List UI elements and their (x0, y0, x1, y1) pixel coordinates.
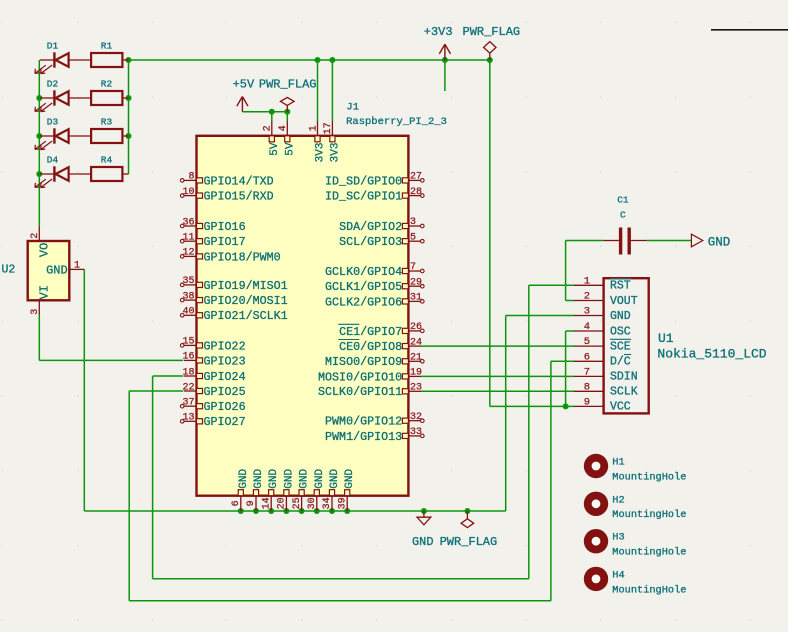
svg-text:GND: GND (253, 468, 265, 488)
U1 pin 4 OSC (574, 321, 631, 338)
junction GND pin6 (238, 508, 244, 514)
U2 pin 2 VO (30, 226, 52, 257)
wire lower return 1 (153, 578, 529, 580)
svg-text:5V: 5V (284, 142, 296, 156)
svg-text:GPIO24: GPIO24 (204, 370, 246, 384)
wire GPIO25 horizontal (129, 390, 183, 392)
power symbol +3V3 (424, 25, 453, 60)
svg-text:28: 28 (410, 187, 422, 198)
connector J1 Raspberry_PI_2_3 (180, 25, 766, 596)
wire 5V to J1 pin2 (271, 112, 273, 121)
J1 pin 26 CE1/GPIO7 (338, 322, 424, 339)
svg-text:GND: GND (708, 235, 731, 249)
wire GPIO24 horizontal (153, 375, 184, 377)
svg-text:39: 39 (337, 497, 348, 509)
svg-text:GPIO19/MISO1: GPIO19/MISO1 (204, 279, 288, 293)
svg-text:36: 36 (182, 217, 194, 228)
wire GPIO24 vertical (152, 376, 154, 579)
svg-text:26: 26 (410, 322, 422, 333)
U1 pin 6 D/C (574, 351, 631, 368)
J1 pin 35 GPIO19/MISO1 (180, 276, 287, 293)
J1 pin 17 3V3 top (323, 121, 341, 162)
svg-text:VI: VI (38, 285, 52, 299)
svg-text:GPIO15/RXD: GPIO15/RXD (204, 190, 274, 204)
svg-text:GND: GND (268, 468, 280, 488)
J1 pin 3 SDA/GPIO2 (339, 217, 424, 234)
svg-text:C1: C1 (617, 195, 629, 206)
J1 pin 13 GPIO27 (180, 413, 245, 430)
junction GND pin25 (299, 508, 305, 514)
svg-text:20: 20 (277, 497, 288, 509)
LED D1 (35, 41, 91, 74)
J1 pin 27 ID_SD/GPIO0 (325, 172, 424, 189)
svg-text:PWR_FLAG: PWR_FLAG (463, 25, 521, 39)
svg-text:24: 24 (410, 337, 422, 348)
LED D4 (35, 155, 91, 188)
svg-text:GND: GND (299, 468, 311, 488)
power symbol +5V (233, 77, 255, 112)
svg-text:37: 37 (182, 398, 194, 409)
svg-text:3: 3 (410, 217, 416, 228)
J1 pin 2 5V top (263, 121, 281, 156)
svg-text:ID_SD/GPIO0: ID_SD/GPIO0 (325, 174, 402, 188)
J1 pin 19 MOSI0/GPIO10 (318, 368, 422, 385)
svg-text:2: 2 (584, 291, 590, 303)
svg-text:PWM0/GPIO12: PWM0/GPIO12 (325, 415, 402, 429)
svg-text:ID_SC/GPIO1: ID_SC/GPIO1 (325, 190, 402, 204)
junction GND pin30 (314, 508, 320, 514)
svg-text:SDA/GPIO2: SDA/GPIO2 (339, 220, 402, 234)
svg-text:27: 27 (410, 172, 422, 183)
svg-text:MountingHole: MountingHole (612, 547, 686, 559)
svg-text:VO: VO (38, 243, 52, 257)
J1 pin 10 GPIO15/RXD (180, 187, 273, 204)
svg-text:C: C (620, 210, 626, 221)
J1 pin 39 GND bottom (337, 468, 356, 511)
LED D3 (35, 117, 91, 150)
svg-text:GPIO22: GPIO22 (204, 339, 246, 353)
svg-text:11: 11 (182, 233, 194, 244)
U1 pin 2 VOUT (574, 291, 638, 308)
J1 pin 21 MISO0/GPIO9 (325, 353, 424, 370)
svg-text:R2: R2 (101, 79, 113, 90)
J1 pin 6 GND bottom (231, 468, 250, 511)
svg-text:22: 22 (182, 382, 194, 393)
wire 3V3 vertical drop (489, 60, 491, 406)
LCD U1 Nokia_5110_LCD (233, 25, 767, 596)
svg-text:MountingHole: MountingHole (612, 509, 686, 521)
power flag PWR_FLAG (+5V) (259, 77, 317, 112)
svg-text:40: 40 (182, 307, 194, 318)
svg-text:GND: GND (412, 535, 434, 549)
wire +3V3 stub (444, 60, 446, 91)
svg-text:33: 33 (410, 427, 422, 438)
J1 pin 14 GND bottom (261, 468, 280, 511)
svg-text:GPIO21/SCLK1: GPIO21/SCLK1 (204, 309, 288, 323)
svg-text:13: 13 (182, 413, 194, 424)
junction PWR_FLAG 5V (284, 109, 290, 115)
svg-text:5V: 5V (269, 142, 281, 156)
wire C1 right to GND label (647, 240, 691, 242)
svg-text:GPIO16: GPIO16 (204, 220, 246, 234)
J1 pin 34 GND bottom (322, 468, 341, 511)
svg-text:R3: R3 (101, 117, 113, 128)
svg-text:D1: D1 (47, 41, 59, 52)
junction PWR_FLAG 3V3 (487, 57, 493, 63)
svg-text:GND: GND (344, 468, 356, 488)
wire SCLK0 to SCLK (421, 390, 575, 392)
svg-text:3V3: 3V3 (329, 143, 341, 163)
J1 pin 15 GPIO22 (180, 337, 245, 354)
resistor R4 (91, 155, 128, 182)
svg-text:Raspberry_PI_2_3: Raspberry_PI_2_3 (346, 116, 447, 128)
svg-text:GCLK1/GPIO5: GCLK1/GPIO5 (325, 280, 402, 294)
junction J1 pin17 3V3 (329, 57, 335, 63)
svg-text:8: 8 (188, 172, 194, 183)
svg-text:H3: H3 (612, 532, 624, 544)
junction GND symbol (421, 508, 427, 514)
junction J1 pin1 3V3 (315, 57, 321, 63)
power flag PWR_FLAG (GND) (440, 511, 498, 549)
svg-text:U2: U2 (2, 264, 16, 277)
mounting hole H1 (584, 454, 687, 484)
svg-text:CE0/GPIO8: CE0/GPIO8 (339, 340, 402, 354)
J1 pin 5 SCL/GPIO3 (339, 232, 424, 249)
svg-text:D3: D3 (47, 117, 59, 128)
wire VCC junction to pin9 (566, 405, 575, 407)
wire lower return 2 (129, 600, 551, 602)
J1 pin 22 GPIO25 (182, 382, 245, 399)
wire U2 VI vertical (38, 315, 40, 361)
svg-text:D2: D2 (47, 79, 59, 90)
svg-text:R4: R4 (101, 155, 113, 166)
svg-text:32: 32 (410, 412, 422, 423)
svg-text:9: 9 (584, 396, 590, 408)
svg-text:SCE: SCE (610, 340, 631, 353)
svg-text:PWR_FLAG: PWR_FLAG (259, 77, 317, 91)
wire GND rail (84, 510, 505, 512)
junction PWR_FLAG GND (464, 508, 470, 514)
svg-text:19: 19 (410, 368, 422, 379)
J1 pin 11 GPIO17 (180, 233, 245, 250)
wire U2 GND vertical (83, 269, 85, 511)
svg-text:GPIO17: GPIO17 (204, 235, 246, 249)
J1 pin 12 GPIO18/PWM0 (180, 248, 280, 265)
svg-text:GND: GND (610, 310, 631, 323)
svg-text:1: 1 (584, 275, 590, 287)
junction GND pin20 (283, 508, 289, 514)
svg-text:15: 15 (182, 337, 194, 348)
svg-text:GND: GND (314, 468, 326, 488)
svg-text:1: 1 (74, 261, 80, 272)
J1 pin 28 ID_SC/GPIO1 (325, 187, 424, 204)
svg-text:R1: R1 (101, 41, 113, 52)
J1 pin 4 5V top (278, 121, 296, 156)
wire +5V rail (242, 111, 287, 113)
svg-text:4: 4 (584, 321, 590, 333)
svg-text:MISO0/GPIO9: MISO0/GPIO9 (325, 355, 402, 369)
svg-text:D/C: D/C (610, 356, 631, 369)
junction GND pin9 (253, 508, 259, 514)
svg-text:PWR_FLAG: PWR_FLAG (440, 535, 498, 549)
J1 pin 25 GND bottom (292, 468, 311, 511)
svg-text:5: 5 (410, 232, 416, 243)
regulator U2 (2, 226, 85, 315)
svg-text:3: 3 (584, 306, 590, 318)
wire OSC to pin4 (566, 330, 575, 332)
wire 3V3 to VCC (490, 405, 566, 407)
svg-text:25: 25 (292, 497, 303, 509)
junction R1 output (126, 57, 132, 63)
svg-text:SDIN: SDIN (610, 371, 638, 384)
junction GND pin39 (344, 508, 350, 514)
mounting hole H3 (584, 529, 687, 559)
junction D4 cathode (36, 171, 42, 177)
J1 pin 33 PWM1/GPIO13 (325, 427, 424, 444)
junction GND pin14 (268, 508, 274, 514)
svg-text:VOUT: VOUT (610, 295, 638, 308)
svg-text:GPIO18/PWM0: GPIO18/PWM0 (204, 250, 281, 264)
svg-text:D4: D4 (47, 155, 59, 166)
J1 pin 7 GCLK0/GPIO4 (325, 262, 424, 279)
wire DC horizontal (551, 360, 575, 362)
svg-text:GPIO20/MOSI1: GPIO20/MOSI1 (204, 294, 288, 308)
junction J1 pin2 5V (269, 109, 275, 115)
hierarchical label GND (691, 234, 730, 249)
svg-text:GPIO27: GPIO27 (204, 415, 246, 429)
wire RST horizontal (529, 284, 575, 286)
svg-text:35: 35 (182, 276, 194, 287)
svg-text:31: 31 (410, 293, 422, 304)
wire 5V to J1 pin4 (286, 112, 288, 121)
svg-text:2: 2 (30, 233, 41, 239)
svg-text:4: 4 (278, 125, 289, 131)
junction D3 cathode (36, 133, 42, 139)
junction R3 output (126, 133, 132, 139)
power flag PWR_FLAG (+3V3) (463, 25, 521, 60)
U1 pin 3 GND (574, 306, 631, 323)
wire LCD GND vertical (505, 316, 507, 512)
J1 pin 38 GPIO20/MOSI1 (180, 291, 287, 308)
J1 pin 30 GND bottom (307, 468, 326, 511)
svg-text:6: 6 (584, 351, 590, 363)
svg-text:GND: GND (283, 468, 295, 488)
svg-text:2: 2 (263, 125, 274, 131)
wire RST vertical (528, 285, 530, 578)
J1 pin 32 PWM0/GPIO12 (325, 412, 424, 429)
J1 pin 37 GPIO26 (180, 398, 245, 415)
wire GPIO25 vertical (128, 391, 130, 601)
svg-text:GPIO14/TXD: GPIO14/TXD (204, 174, 274, 188)
J1 pin 20 GND bottom (277, 468, 296, 511)
wire resistor output bus vertical (128, 60, 130, 174)
wire C1 to VOUT vertical (565, 241, 567, 301)
wire DC vertical (550, 361, 552, 601)
svg-text:GND: GND (238, 468, 250, 488)
wire CE0 to SCE (421, 345, 575, 347)
wire MOSI0 to SDIN (421, 375, 575, 377)
U1 pin 1 RST (574, 275, 631, 292)
J1 pin 31 GCLK2/GPIO6 (325, 293, 424, 310)
svg-text:J1: J1 (346, 102, 359, 114)
svg-text:H4: H4 (612, 569, 624, 581)
svg-text:3: 3 (30, 309, 41, 315)
svg-text:17: 17 (323, 122, 334, 134)
svg-text:SCLK0/GPIO11: SCLK0/GPIO11 (318, 385, 402, 399)
J1 pin 23 SCLK0/GPIO11 (318, 383, 422, 400)
svg-text:Nokia_5110_LCD: Nokia_5110_LCD (657, 346, 766, 361)
J1 pin 40 GPIO21/SCLK1 (180, 307, 287, 324)
svg-text:9: 9 (246, 500, 257, 506)
svg-text:14: 14 (261, 497, 272, 509)
resistor R3 (91, 117, 128, 144)
wire 3V3 to J1 pin17 (331, 60, 333, 121)
svg-text:34: 34 (322, 497, 333, 509)
svg-text:H2: H2 (612, 494, 624, 506)
U2 pin 3 VI (30, 285, 52, 315)
svg-text:23: 23 (410, 383, 422, 394)
J1 pin 8 GPIO14/TXD (180, 172, 273, 189)
junction GND pin34 (329, 508, 335, 514)
svg-text:12: 12 (182, 248, 194, 259)
svg-text:SCLK: SCLK (610, 386, 638, 399)
svg-text:H1: H1 (612, 457, 624, 469)
svg-text:MountingHole: MountingHole (612, 584, 686, 596)
svg-text:7: 7 (410, 262, 416, 273)
U1 pin 7 SDIN (574, 366, 638, 383)
svg-text:GPIO26: GPIO26 (204, 400, 246, 414)
junction R2 output (126, 95, 132, 101)
svg-text:38: 38 (182, 291, 194, 302)
svg-text:MountingHole: MountingHole (612, 471, 686, 483)
svg-text:PWM1/GPIO13: PWM1/GPIO13 (325, 430, 402, 444)
U2 pin 1 GND (46, 261, 84, 278)
svg-text:MOSI0/GPIO10: MOSI0/GPIO10 (318, 370, 402, 384)
svg-text:18: 18 (182, 367, 194, 378)
wire GPIO23 horizontal (39, 359, 183, 361)
svg-text:16: 16 (182, 352, 194, 363)
junction D2 cathode (36, 95, 42, 101)
wire 3V3 to J1 pin1 (317, 60, 319, 121)
wire VOUT to pin2 (566, 300, 575, 302)
J1 pin 9 GND bottom (246, 468, 265, 511)
svg-text:3V3: 3V3 (315, 143, 327, 163)
J1 pin 1 3V3 top (308, 121, 326, 162)
mounting hole H4 (584, 567, 687, 597)
svg-text:OSC: OSC (610, 325, 631, 338)
svg-text:CE1/GPIO7: CE1/GPIO7 (339, 325, 402, 339)
J1 pin 29 GCLK1/GPIO5 (325, 277, 424, 294)
svg-text:RST: RST (610, 280, 631, 293)
wire +3V3 top rail (129, 59, 490, 61)
U1 pin 9 VCC (574, 396, 631, 413)
svg-text:U1: U1 (658, 331, 674, 346)
J1 pin 24 CE0/GPIO8 (338, 337, 422, 354)
svg-text:GND: GND (46, 263, 68, 277)
resistor R2 (91, 79, 128, 106)
svg-text:21: 21 (410, 353, 422, 364)
svg-text:+3V3: +3V3 (424, 25, 453, 39)
svg-text:SCL/GPIO3: SCL/GPIO3 (339, 235, 402, 249)
svg-text:30: 30 (307, 497, 318, 509)
svg-text:29: 29 (410, 277, 422, 288)
svg-text:8: 8 (584, 381, 590, 393)
mounting hole H2 (584, 492, 687, 522)
svg-text:1: 1 (308, 125, 319, 131)
wire OSC-VCC vertical (565, 331, 567, 406)
svg-text:GCLK2/GPIO6: GCLK2/GPIO6 (325, 295, 402, 309)
J1 pin 18 GPIO24 (182, 367, 245, 384)
J1 pin 16 GPIO23 (182, 352, 245, 369)
U1 pin 8 SCLK (574, 381, 638, 398)
J1 pin 36 GPIO16 (180, 217, 245, 234)
svg-text:GCLK0/GPIO4: GCLK0/GPIO4 (325, 265, 402, 279)
svg-text:GPIO23: GPIO23 (204, 354, 246, 368)
LED D2 (35, 79, 91, 112)
wire LCD GND horizontal (506, 315, 575, 317)
svg-text:10: 10 (182, 187, 194, 198)
svg-text:7: 7 (584, 366, 590, 378)
wire C1 left (566, 240, 604, 242)
svg-text:+5V: +5V (233, 77, 255, 91)
svg-text:GND: GND (329, 468, 341, 488)
capacitor C1 (603, 195, 646, 255)
junction +3V3 symbol (442, 57, 448, 63)
svg-text:5: 5 (584, 336, 590, 348)
svg-text:VCC: VCC (610, 401, 631, 414)
sheet border line (711, 29, 788, 31)
ground symbol GND (412, 511, 434, 549)
junction VCC node (563, 403, 569, 409)
resistor R1 (91, 41, 128, 68)
U1 pin 5 SCE (574, 336, 631, 353)
svg-text:6: 6 (231, 500, 242, 506)
wire LED cathode bus vertical (38, 60, 40, 226)
svg-text:GPIO25: GPIO25 (204, 385, 246, 399)
